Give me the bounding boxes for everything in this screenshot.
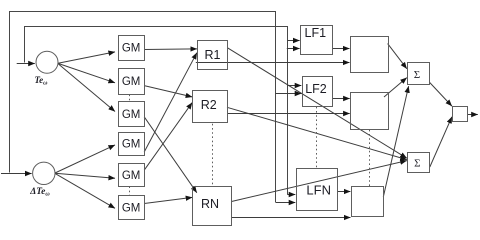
wire LF1 to W1 xyxy=(332,48,349,50)
wire RN to Sigma2 xyxy=(232,161,407,202)
svg-text:LFN: LFN xyxy=(306,182,331,197)
wire R2 to Sigma2 xyxy=(227,107,407,159)
box R1 xyxy=(198,41,228,70)
wire GM6 to RN xyxy=(144,197,192,203)
wire W2 to Sigma1 xyxy=(384,78,407,97)
svg-text:GM: GM xyxy=(122,43,141,55)
dots GM5-GM6 xyxy=(129,186,131,195)
wire RN to WN xyxy=(232,217,351,219)
svg-text:GM: GM xyxy=(122,202,141,214)
dots W2-WN xyxy=(369,130,371,186)
svg-text:GM: GM xyxy=(122,170,141,182)
wire GM3 to RN xyxy=(144,117,197,193)
svg-text:Teω: Teω xyxy=(34,75,48,87)
wire input Te into summing circle 1 xyxy=(17,63,35,65)
wire circle2 to GM4 xyxy=(55,145,115,173)
wire feedback dTe top loop xyxy=(10,12,276,203)
wire LFN to WN xyxy=(337,191,350,193)
wire WN to Sigma1 xyxy=(383,86,408,197)
box GM4 xyxy=(119,133,145,156)
box W1 (product) xyxy=(351,37,389,73)
wire output arrow xyxy=(467,114,477,116)
wire Sigma1 to output box xyxy=(430,83,452,107)
box WN (product) xyxy=(352,187,384,217)
box W2 (product) xyxy=(351,93,389,130)
wire circle2 to GM5 xyxy=(55,173,115,178)
wire circle1 to GM2 xyxy=(58,63,115,82)
wire GM2 to R2 xyxy=(144,86,192,97)
box LF1 xyxy=(301,26,333,55)
wire feedback Te top loop xyxy=(25,27,288,195)
wire stub dTe to LFN xyxy=(276,202,296,204)
wire LF2 to W2 xyxy=(332,98,350,100)
wire GM5 to R2 xyxy=(144,103,192,171)
svg-text:LF1: LF1 xyxy=(305,26,327,40)
wire circle2 to GM6 xyxy=(55,173,115,208)
wire R1 to Sigma2 xyxy=(228,48,407,158)
box RN xyxy=(193,187,232,226)
dots GM2-GM3 xyxy=(129,95,131,102)
svg-text:Σ: Σ xyxy=(414,69,420,81)
wire Sigma2 to output box xyxy=(430,117,452,167)
box Sigma2 xyxy=(408,153,430,173)
node summing circle 1 (Te) xyxy=(36,51,58,73)
svg-text:R2: R2 xyxy=(201,98,217,112)
svg-text:GM: GM xyxy=(122,76,141,88)
wire GM1 to R1 xyxy=(144,48,197,51)
box GM3 xyxy=(119,102,145,127)
wire circle1 to GM1 xyxy=(58,52,115,63)
box GM1 xyxy=(119,36,145,61)
box GM6 xyxy=(119,196,145,220)
wire input dTe into summing circle 2 xyxy=(1,173,32,175)
box R2 xyxy=(193,91,228,123)
box LF2 xyxy=(303,77,333,107)
box LFN xyxy=(297,169,338,211)
dots LF2-LFN xyxy=(316,107,318,169)
box output (divide) xyxy=(453,107,468,122)
wire stub dTe to LF1 xyxy=(287,48,300,50)
svg-text:GM: GM xyxy=(122,139,141,151)
svg-text:LF2: LF2 xyxy=(305,82,327,96)
svg-text:ΔTeω: ΔTeω xyxy=(29,187,50,198)
wire stub dTe to LF2 xyxy=(276,93,302,95)
dots R2-RN xyxy=(212,124,214,187)
wire stub Te to LF2 xyxy=(287,85,301,87)
wire circle1 to GM3 xyxy=(58,64,115,112)
node summing circle 2 (dTe) xyxy=(33,162,55,184)
wire R1 to W1 xyxy=(196,62,350,64)
box GM5 xyxy=(119,164,145,187)
wire R2 to W2 xyxy=(227,113,350,115)
wire stub Te to LF1 xyxy=(287,40,299,42)
svg-text:RN: RN xyxy=(201,197,219,211)
svg-text:Σ: Σ xyxy=(414,157,420,169)
wire stub Te to LFN xyxy=(287,194,295,196)
wire GM4 to R1 xyxy=(144,53,197,152)
box GM2 xyxy=(119,69,145,95)
box Sigma1 xyxy=(408,63,430,85)
wire W1 to Sigma1 xyxy=(388,44,407,69)
svg-text:GM: GM xyxy=(122,109,141,121)
svg-text:R1: R1 xyxy=(205,48,221,62)
